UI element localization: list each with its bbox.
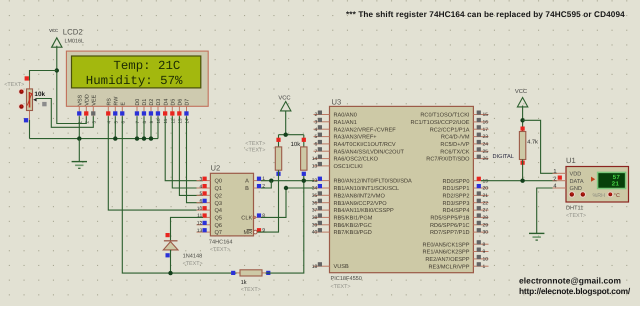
svg-text:35: 35 (312, 193, 318, 199)
svg-text:Q4: Q4 (215, 208, 222, 214)
svg-text:VDD: VDD (570, 172, 582, 178)
svg-text:<TEXT>: <TEXT> (4, 82, 24, 88)
svg-text:6: 6 (200, 199, 203, 205)
svg-text:20: 20 (483, 186, 489, 192)
svg-text:1: 1 (553, 169, 556, 175)
svg-text:VCC: VCC (278, 94, 290, 101)
svg-text:74HC164: 74HC164 (209, 240, 233, 246)
resistor R4 4.7k (519, 127, 525, 165)
svg-text:http://elecnote.blogspot.com/: http://elecnote.blogspot.com/ (519, 286, 631, 296)
wire 4.7k to DATA (522, 160, 524, 181)
svg-text:RC5/D+/VP: RC5/D+/VP (440, 141, 469, 148)
svg-text:OSC1/CLKI: OSC1/CLKI (334, 163, 364, 170)
svg-text:11: 11 (197, 213, 202, 219)
svg-text:16: 16 (483, 120, 489, 126)
svg-text:39: 39 (312, 222, 318, 228)
svg-text:RD0/SPP0: RD0/SPP0 (442, 178, 469, 185)
svg-text:4.7k: 4.7k (527, 138, 538, 145)
svg-text:RW: RW (114, 96, 120, 106)
wire bus to ground (78, 139, 80, 162)
svg-text:17: 17 (483, 127, 489, 133)
svg-text:2: 2 (315, 112, 318, 118)
svg-text:DHT11: DHT11 (566, 206, 583, 212)
svg-text:10k: 10k (291, 141, 302, 148)
svg-text:RC2/CCP1/P1A: RC2/CCP1/P1A (430, 126, 470, 133)
diode D1 1N4148 (163, 233, 178, 257)
svg-text:10: 10 (197, 206, 203, 212)
node bus-D0 (135, 136, 139, 140)
potentiometer RV1 10k (18, 76, 46, 122)
svg-text:1N4148: 1N4148 (183, 253, 203, 259)
wire D7 to Q3 (187, 116, 204, 202)
svg-text:15: 15 (483, 112, 489, 118)
svg-text:21: 21 (483, 193, 489, 199)
wire CLOCK RB1 pin34 to CLK (261, 188, 318, 217)
wire RS to Q4 (108, 116, 196, 210)
ground (LCD) (72, 162, 87, 169)
wire ground bus (30, 138, 159, 140)
svg-text:DIGITAL: DIGITAL (493, 154, 514, 160)
svg-text:Q6: Q6 (215, 223, 222, 229)
wire VCC stem to VDD (57, 46, 87, 124)
wire D4 to Q0 (165, 116, 203, 180)
svg-text:RB1/AN10/INT1/SCK/SCL: RB1/AN10/INT1/SCK/SCL (334, 185, 400, 192)
LCD LCD2 LM016L (66, 51, 208, 106)
svg-text:D4: D4 (163, 99, 169, 106)
wire 1k to data/pullup vertical (266, 174, 304, 273)
svg-text:3: 3 (315, 119, 318, 125)
DHT11 pin stubs numbers 1,2,4 (553, 169, 567, 190)
svg-text:Q3: Q3 (215, 201, 222, 207)
svg-text:30: 30 (483, 230, 489, 236)
svg-text:D5: D5 (171, 99, 177, 106)
svg-text:RB4/AN11/KBI0/CSSPP: RB4/AN11/KBI0/CSSPP (334, 207, 394, 214)
svg-text:38: 38 (312, 215, 318, 221)
svg-text:24: 24 (483, 142, 489, 148)
svg-text:RA0/AN0: RA0/AN0 (334, 112, 357, 119)
svg-text:D0: D0 (135, 99, 141, 106)
svg-text:U1: U1 (566, 156, 576, 165)
svg-text:22: 22 (483, 200, 489, 206)
wire DATA RD0 pin19 to DHT11 (481, 180, 557, 182)
svg-text:<TEXT>: <TEXT> (331, 284, 351, 290)
resistor R1 10k (left pullup) (275, 138, 281, 176)
svg-text:VEE: VEE (92, 94, 98, 105)
svg-text:RD2/SPP2: RD2/SPP2 (442, 193, 469, 200)
wire DATA row A to RB0 pin33 (261, 180, 318, 182)
svg-text:B: B (245, 186, 249, 192)
wire VSS down (78, 116, 80, 138)
svg-text:RA1/AN1: RA1/AN1 (334, 119, 357, 126)
wire E line down (122, 116, 236, 273)
svg-text:RA5/AN4/SS/LVDIN/C2OUT: RA5/AN4/SS/LVDIN/C2OUT (334, 148, 405, 155)
wire VCC branch to pot (30, 71, 57, 81)
svg-text:12: 12 (197, 221, 203, 227)
svg-text:RA2/AN2/VREF-/CVREF: RA2/AN2/VREF-/CVREF (334, 126, 397, 133)
svg-text:Temp: 21C: Temp: 21C (113, 59, 180, 73)
svg-text:7: 7 (315, 149, 318, 155)
U3 left pin stubs numbers 2-7,14,13,33-40,18 (312, 111, 330, 270)
svg-text:RD7/SPP7/P1D: RD7/SPP7/P1D (430, 229, 469, 236)
svg-text:vcc: vcc (49, 28, 58, 34)
svg-text:RC0/T1OSO/T1CKI: RC0/T1OSO/T1CKI (420, 112, 470, 119)
svg-text:<TEXT>: <TEXT> (241, 287, 261, 293)
svg-text:RB7/KBI3/PGD: RB7/KBI3/PGD (334, 229, 372, 236)
wire VCC branch to DHT11 VDD (523, 120, 557, 173)
wire DHT11 GND to ground (537, 188, 557, 233)
wire D2 down (150, 116, 152, 138)
U2 left pins Q0-Q7 stubs numbers 3,4,5,6,10,11,12,13 (197, 176, 211, 234)
svg-text:E: E (121, 102, 127, 106)
svg-text:<TEXT>: <TEXT> (566, 213, 586, 219)
svg-text:LM016L: LM016L (65, 38, 84, 44)
wire diode anode to E line (170, 250, 172, 273)
svg-text:<TEXT>: <TEXT> (210, 247, 230, 253)
svg-text:°C: °C (614, 193, 620, 199)
resistor R2 10k (right pullup) (301, 138, 307, 176)
svg-text:VDD: VDD (85, 94, 91, 105)
svg-text:40: 40 (312, 230, 318, 236)
svg-text:RB0/AN12/INT0/FLT0/SDI/SDA: RB0/AN12/INT0/FLT0/SDI/SDA (334, 178, 413, 185)
svg-text:A: A (245, 179, 249, 185)
node bus-VSS (77, 136, 81, 140)
node CLOCK corner (284, 186, 288, 190)
svg-text:2: 2 (553, 176, 556, 182)
svg-text:LCD2: LCD2 (63, 27, 83, 36)
svg-text:<TEXT>: <TEXT> (245, 141, 265, 147)
svg-text:RA4/T0CKI/C1OUT/RCV: RA4/T0CKI/C1OUT/RCV (334, 141, 396, 148)
svg-text:<TEXT>: <TEXT> (245, 148, 265, 154)
svg-text:CLK: CLK (241, 216, 252, 222)
svg-text:13: 13 (197, 228, 203, 234)
ground (DHT11) (529, 233, 544, 240)
wire VCC to 4.7k (522, 106, 524, 132)
svg-text:U3: U3 (332, 98, 342, 107)
node DATA-B join (269, 179, 273, 183)
svg-text:Q2: Q2 (215, 193, 222, 199)
svg-text:D6: D6 (178, 99, 184, 106)
wire D0 down (136, 116, 138, 138)
svg-text:10k: 10k (34, 91, 45, 98)
node VCC junction (55, 68, 59, 72)
svg-text:RE1/AN6/CK2SPP: RE1/AN6/CK2SPP (423, 249, 470, 256)
LCD pin stubs and state squares pins 1-14 (77, 106, 189, 123)
svg-text:Q0: Q0 (215, 179, 222, 185)
wire D5 to Q1 (172, 116, 203, 188)
svg-text:8: 8 (483, 242, 486, 248)
svg-text:RC7/RX/DT/SDO: RC7/RX/DT/SDO (426, 156, 470, 163)
svg-text:37: 37 (312, 208, 318, 214)
svg-text:RB6/KBI2/PGC: RB6/KBI2/PGC (334, 222, 372, 229)
svg-text:13: 13 (312, 164, 318, 170)
svg-text:4: 4 (553, 184, 556, 190)
svg-text:RD5/SPP5/P1B: RD5/SPP5/P1B (430, 215, 469, 222)
svg-text:D7: D7 (185, 99, 191, 106)
wire pot bottom to ground bus (29, 120, 31, 139)
svg-text:U2: U2 (211, 164, 221, 173)
svg-text:Q5: Q5 (215, 216, 222, 222)
svg-text:D2: D2 (149, 99, 155, 106)
wire pot wiper to VEE (37, 99, 94, 128)
power VCC (DHT11) (515, 88, 528, 107)
svg-text:RD6/SPP6/P1C: RD6/SPP6/P1C (430, 222, 469, 229)
svg-text:DATA: DATA (570, 179, 584, 185)
svg-text:RB3/AN9/CCP2/VPO: RB3/AN9/CCP2/VPO (334, 200, 388, 207)
node DATA-pullup join (302, 179, 306, 183)
svg-text:36: 36 (312, 200, 318, 206)
svg-text:Q1: Q1 (215, 186, 222, 192)
svg-text:*** The shift register 74HC164: *** The shift register 74HC164 can be re… (346, 10, 625, 19)
wire MR to left pullup (258, 170, 279, 232)
svg-text:VSS: VSS (78, 94, 84, 105)
U2 right pins A,B,CLK,MR stubs numbers 1,2,8,9 (254, 176, 267, 234)
resistor R3 1k (231, 270, 270, 276)
svg-text:RC1/T1OSI/CCP2/UOE: RC1/T1OSI/CCP2/UOE (410, 119, 469, 126)
svg-text:<TEXT>: <TEXT> (183, 261, 203, 267)
svg-text:RB2/AN8/INT2/VMO: RB2/AN8/INT2/VMO (334, 192, 386, 199)
power VCC (pullups) (278, 94, 291, 111)
svg-text:25: 25 (483, 149, 489, 155)
svg-text:3: 3 (200, 176, 203, 182)
power VCC (LCD) (49, 28, 62, 47)
svg-text:9: 9 (483, 249, 486, 255)
svg-text:VUSB: VUSB (334, 264, 350, 270)
wire RW down (114, 116, 116, 138)
svg-text:23: 23 (483, 134, 489, 140)
svg-text:4: 4 (315, 127, 318, 133)
svg-text:%RH: %RH (593, 193, 606, 199)
svg-text:10: 10 (483, 257, 489, 263)
svg-text:D1: D1 (142, 99, 148, 106)
svg-text:5: 5 (315, 134, 318, 140)
svg-text:28: 28 (483, 215, 489, 221)
svg-text:18: 18 (312, 264, 318, 270)
svg-text:RC6/TX/CK: RC6/TX/CK (440, 148, 469, 155)
svg-text:6: 6 (315, 142, 318, 148)
wire D3 down (157, 116, 159, 138)
node VCC-VDD branch (520, 118, 524, 122)
node bus-RW (113, 136, 117, 140)
sensor U1 DHT11 body (566, 167, 629, 203)
svg-text:PIC18F4550: PIC18F4550 (331, 276, 362, 282)
node DATA-4.7k (520, 179, 524, 183)
node diode-E line (168, 271, 172, 275)
wire Q5 to diode cathode (171, 217, 204, 240)
svg-text:19: 19 (483, 178, 489, 184)
node VCC bar junction (284, 133, 288, 137)
U3 right pin stubs numbers 15-17,23-26,19-22,27-30,8,9,10,1 (473, 111, 488, 270)
wire VCC bar to pullups (279, 111, 304, 147)
svg-text:27: 27 (483, 208, 489, 214)
svg-text:electronnote@gmail.com: electronnote@gmail.com (519, 276, 621, 286)
svg-text:14: 14 (312, 156, 318, 162)
svg-text:Humidity: 57%: Humidity: 57% (86, 74, 183, 88)
svg-text:RC4/D-/VM: RC4/D-/VM (441, 134, 470, 141)
microcontroller U3 PIC18F4550 body (330, 106, 474, 272)
svg-text:29: 29 (483, 222, 489, 228)
shift register U2 74HC164 body (210, 173, 257, 236)
svg-text:1: 1 (483, 264, 486, 270)
svg-text:RD3/SPP3: RD3/SPP3 (442, 200, 469, 207)
svg-text:21: 21 (611, 181, 619, 188)
svg-text:26: 26 (483, 156, 489, 162)
svg-text:Q7: Q7 (215, 230, 222, 236)
svg-text:RE2/AN7/OESPP: RE2/AN7/OESPP (425, 256, 469, 263)
wire B join (261, 181, 271, 188)
svg-text:1k: 1k (241, 279, 247, 286)
svg-text:RE3/MCLR/VPP: RE3/MCLR/VPP (428, 263, 469, 270)
svg-text:RD4/SPP4: RD4/SPP4 (442, 207, 469, 214)
svg-text:D3: D3 (156, 99, 162, 106)
svg-text:5: 5 (200, 191, 203, 197)
svg-text:MR: MR (243, 230, 252, 236)
svg-text:4: 4 (200, 184, 203, 190)
wire D1 down (143, 116, 145, 138)
svg-text:VCC: VCC (515, 88, 527, 95)
svg-text:RD1/SPP1: RD1/SPP1 (442, 185, 469, 192)
svg-text:33: 33 (312, 178, 318, 184)
node bus-D1 (142, 136, 146, 140)
svg-text:RE0/AN5/CK1SPP: RE0/AN5/CK1SPP (423, 241, 470, 248)
wire D6 to Q2 (179, 116, 203, 195)
svg-text:RA3/AN3/VREF+: RA3/AN3/VREF+ (334, 134, 377, 141)
svg-text:RB5/KBI1/PGM: RB5/KBI1/PGM (334, 215, 373, 222)
svg-text:34: 34 (312, 186, 318, 192)
svg-text:RA6/OSC2/CLKO: RA6/OSC2/CLKO (334, 156, 379, 163)
node bus-D2 (149, 136, 153, 140)
svg-text:RS: RS (107, 98, 113, 106)
